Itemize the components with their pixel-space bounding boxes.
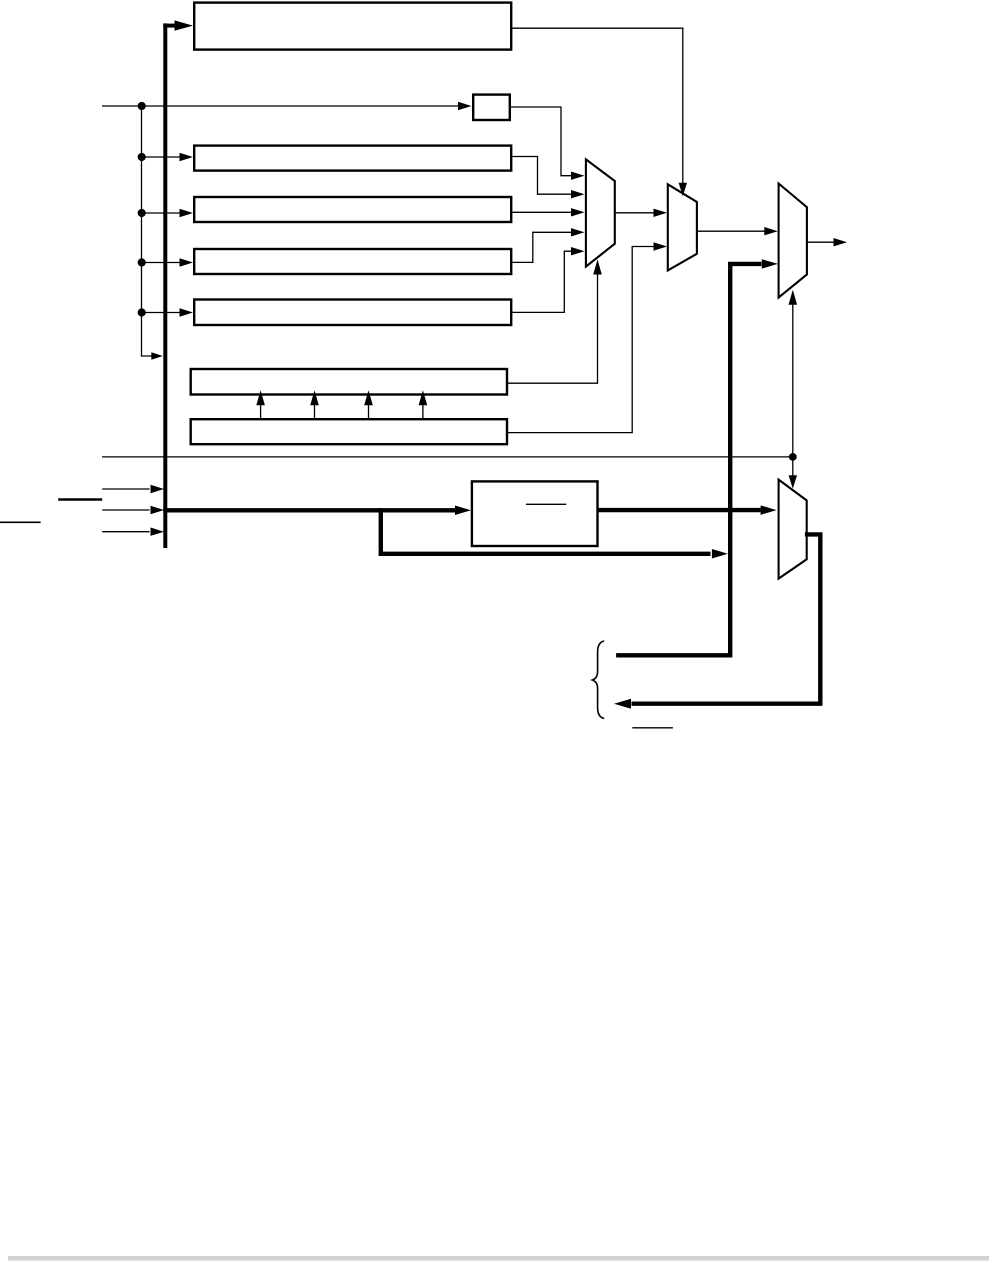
wire: far-left label stub segment bbox=[0, 521, 41, 523]
wire: mux U2 output to mux U3 input 1 bbox=[697, 230, 765, 232]
node J3: junction dot feeding register R2 bbox=[138, 209, 146, 217]
node J6: junction dot on long control line bbox=[789, 453, 797, 461]
register R3 bbox=[194, 249, 511, 274]
node J4: junction dot feeding register R3 bbox=[138, 258, 146, 266]
wire: register R4 output to mux U1 input 5 bbox=[511, 251, 571, 312]
register R4 bbox=[194, 300, 511, 326]
wire: register R2 output to mux U1 input 3 bbox=[511, 211, 571, 213]
wire: latch L1 output to mux U1 input 1 bbox=[510, 107, 571, 176]
register D1: decode box bbox=[472, 481, 598, 546]
wire: left input arrow 3 into bus bbox=[102, 531, 149, 533]
mux U3: output multiplexer trapezoid bbox=[779, 184, 807, 298]
mux U4: lower multiplexer trapezoid bbox=[779, 480, 807, 579]
wire: thick decode box output into mux U4 bbox=[598, 508, 761, 512]
node J2: junction dot feeding register R1 bbox=[138, 153, 146, 161]
footer rule: gray bottom bar bbox=[8, 1256, 989, 1261]
wire: up arrow 4 from R6 into R5 bbox=[422, 404, 424, 419]
wire: junction down arrow into mux U4 top bbox=[792, 457, 794, 476]
wire: thick bus output into decode box D1 bbox=[163, 508, 456, 512]
wire: thick label stub segment at left bbox=[58, 498, 102, 501]
wire: thick feedback path up into mux U3 input 2 bbox=[616, 264, 761, 655]
node J1: junction dot on latch input line bbox=[138, 102, 146, 110]
bus B1: thick vertical internal data bus bbox=[163, 23, 167, 548]
wire: arrow into register R3 bbox=[142, 262, 181, 264]
wire: mux U3 output arrow to the right bbox=[807, 241, 834, 243]
wire: instruction register output down to mux U2 top input bbox=[511, 28, 683, 183]
register R1 bbox=[194, 146, 511, 171]
wire: register R1 output to mux U1 input 2 bbox=[511, 157, 571, 195]
wire: up arrow 2 from R6 into R5 bbox=[314, 404, 316, 419]
wire: left feeder vertical line with small arrow into bus bbox=[142, 106, 153, 356]
wire: thick branch down and right toward feedback line bbox=[381, 508, 711, 554]
wire: control input line into latch L1 bbox=[102, 105, 459, 107]
mux U2: multiplexer trapezoid bbox=[668, 184, 697, 270]
register IR: instruction register (top box) bbox=[194, 3, 511, 50]
wire: bus arm with big arrow into instruction register bbox=[163, 24, 176, 28]
wire: overbar of hidden label below brace bbox=[632, 727, 673, 729]
register R6: lower wide box of register pair bbox=[191, 419, 507, 444]
register R2 bbox=[194, 197, 511, 222]
wire: R5 output up to mux U1 select input (bottom arrow) bbox=[507, 273, 598, 383]
wire: mux U3 select line with up arrow from junction bbox=[792, 302, 794, 457]
register L1: small latch box bbox=[473, 95, 510, 120]
wire: R6 output to mux U2 input 2 bbox=[507, 247, 654, 433]
wire: up arrow 1 from R6 into R5 bbox=[260, 404, 262, 419]
wire: long horizontal control line bbox=[102, 456, 793, 458]
wire: left input arrow 1 into bus bbox=[102, 488, 149, 490]
wire: arrow into register R1 bbox=[142, 156, 181, 158]
wire: thick mux U4 output down and left with arrow bbox=[632, 534, 821, 703]
wire: arrow into register R2 bbox=[142, 212, 181, 214]
wire: arrow into register R4 bbox=[142, 312, 181, 314]
wire: overbar of hidden label inside decode box bbox=[526, 503, 566, 505]
register R5: upper wide box of register pair bbox=[191, 369, 507, 395]
wire: up arrow 3 from R6 into R5 bbox=[368, 404, 370, 419]
brace: left curly brace grouping the two feedback lines bbox=[592, 641, 604, 719]
mux U1: five-input multiplexer trapezoid bbox=[586, 159, 615, 266]
wire: left input arrow 2 into bus bbox=[102, 509, 149, 511]
wire: mux U1 output to mux U2 input 1 bbox=[615, 212, 654, 214]
wire: register R3 output to mux U1 input 4 bbox=[511, 232, 571, 262]
node J5: junction dot feeding register R4 bbox=[138, 308, 146, 316]
